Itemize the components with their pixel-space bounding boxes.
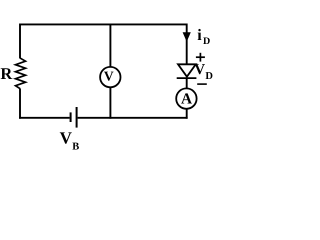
current arrow iD	[183, 32, 191, 42]
svg-text:i: i	[197, 27, 202, 44]
diode D1 triangle	[178, 64, 196, 76]
voltmeter V1 circle	[100, 67, 120, 87]
wire: bottom rail left segment to battery	[19, 117, 70, 119]
svg-text:A: A	[181, 91, 192, 108]
battery VB long plate	[76, 107, 78, 128]
svg-text:V: V	[60, 129, 73, 148]
wire: right branch upper top rail to diode	[186, 24, 188, 65]
svg-text:V: V	[194, 62, 205, 78]
diode D1 cathode bar	[177, 77, 197, 79]
svg-text:D: D	[205, 71, 213, 82]
svg-text:D: D	[203, 36, 210, 47]
wire: ammeter to bottom rail	[186, 109, 188, 119]
wire: left branch lower	[19, 89, 21, 119]
svg-text:B: B	[72, 141, 79, 150]
label plus sign	[196, 56, 205, 58]
label minus sign	[197, 83, 207, 85]
wire: middle branch lower	[109, 87, 111, 119]
wire: left branch upper	[19, 24, 21, 59]
resistor R	[16, 58, 26, 89]
svg-text:V: V	[104, 68, 114, 83]
wire: top rail	[20, 23, 187, 25]
battery VB short plate	[70, 112, 72, 122]
svg-text:R: R	[0, 64, 13, 83]
wire: bottom rail right segment battery to right branch	[78, 117, 188, 119]
wire: diode to ammeter	[186, 78, 188, 89]
wire: middle branch upper	[109, 24, 111, 68]
ammeter A1 circle	[176, 88, 196, 108]
